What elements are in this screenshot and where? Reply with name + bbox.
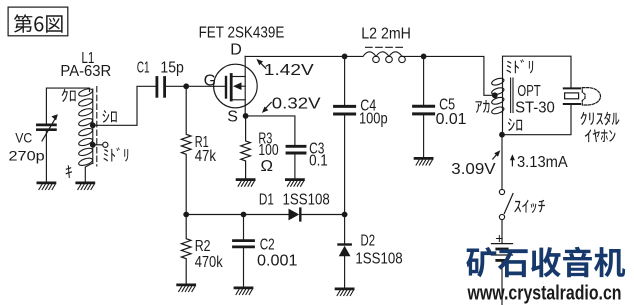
svg-text:100p: 100p [359,111,388,128]
label fig number [14,14,63,33]
label midori L1 [104,147,129,161]
wire AGC rail left [186,214,288,216]
svg-text:D: D [230,42,242,59]
svg-text:270p: 270p [9,147,45,163]
wire C3 to ground [294,154,296,178]
OPT primary coil loops [491,77,505,115]
ground under C2 [235,288,252,295]
svg-text:15p: 15p [160,60,184,77]
svg-text:PA-63R: PA-63R [60,63,111,80]
FET internal vertical D-S [244,56,246,116]
svg-text:1SS108: 1SS108 [283,192,330,209]
svg-text:1.42V: 1.42V [264,62,314,79]
svg-text:R2: R2 [195,238,211,255]
inductor L2 [363,52,405,63]
svg-text:S: S [227,108,238,125]
capacitor VC variable [37,125,55,130]
capacitor C4 [344,56,346,104]
transistor Q1 FET circle [214,64,258,108]
node C4 top junction [342,54,348,60]
label ki [66,165,72,178]
svg-text:C1: C1 [137,60,150,77]
svg-text:0.1: 0.1 [309,153,328,170]
ground under VC [38,183,55,190]
node switch top junction [499,132,505,138]
arrow 0.32V [264,103,271,111]
wire C1 to gate [166,85,225,87]
ground under C5 [415,158,432,165]
svg-text:D2: D2 [361,233,376,250]
svg-text:100: 100 [258,142,278,159]
wire D1 to C4/D2 junction [302,214,345,216]
capacitor C1 [157,78,165,97]
ground under L1 [77,183,94,190]
FET drain stub [233,76,246,78]
svg-text:Ω: Ω [261,158,274,175]
node S junction [243,113,249,119]
capacitor C3 [287,146,305,153]
switch contacts [499,189,504,194]
svg-text:ST-30: ST-30 [515,99,555,116]
node midori tap [90,142,96,148]
svg-text:470k: 470k [195,254,224,271]
switch lever [504,194,513,214]
ground under R2 [178,285,195,292]
svg-text:3.13mA: 3.13mA [517,154,568,171]
node R2 rail junction [183,212,189,218]
ground under R3 [237,180,254,187]
wire OPT bottom to switch [501,135,503,190]
arrow 1.42V [258,61,265,68]
svg-text:0.01: 0.01 [436,111,467,128]
label shiro OPT [508,118,522,131]
node C5 top junction [421,54,427,60]
node D2 rail junction [342,212,348,218]
resistor R2 [181,215,191,284]
svg-text:0.001: 0.001 [257,253,298,270]
svg-text:OPT: OPT [517,83,540,100]
diode D1 [289,209,300,221]
capacitor C5 [423,56,425,104]
watermark cn text [466,247,625,278]
wire switch to battery [501,220,503,243]
L1 core dashed line [96,87,98,167]
node C2 rail junction [241,212,247,218]
svg-text:+: + [495,230,503,246]
FET substrate arrow [240,85,245,87]
node OPT tap dot [492,92,498,98]
earphone shell [582,88,600,105]
label switch name [514,200,545,213]
resistor R1 [181,86,191,214]
OPT core bars [510,78,512,113]
wire S node to C3 [246,116,295,145]
resistor R3 [241,116,251,178]
svg-text:0.32V: 0.32V [272,96,321,113]
svg-text:L2 2mH: L2 2mH [361,26,411,43]
label aka [476,100,490,113]
svg-text:47k: 47k [195,148,217,165]
wire L2 to C5 and right [402,56,493,95]
label kuro [62,89,76,102]
node C1/R1 junction [183,83,189,89]
svg-text:3.09V: 3.09V [451,161,496,178]
ground under D2 [336,289,353,296]
earphone crystal element [564,87,580,89]
FET source stub [233,99,246,101]
capacitor C2 [243,215,245,240]
FET gate bar [225,77,227,98]
L2 core dashed [366,46,403,48]
svg-text:C2: C2 [260,237,275,254]
svg-text:D1: D1 [259,192,274,209]
figure label box [8,7,68,36]
svg-text:G: G [204,72,216,89]
wire secondary loop rectangle [503,56,572,113]
svg-text:www.crystalradio.cn: www.crystalradio.cn [467,283,622,305]
svg-text:FET 2SK439E: FET 2SK439E [199,25,285,42]
wire battery to bottom edge [501,260,503,305]
label earphone [585,129,616,142]
wire L1 bottom to ground [85,163,93,182]
wire top rail drain to L2 [245,55,362,57]
wire VC top to L1 top [46,88,89,124]
wire shiro tap to C1 [93,86,156,125]
label shiro L1 [103,110,117,123]
battery B1 [492,243,513,245]
inductor L1 coil loops [78,87,94,166]
diode D2 [344,215,346,245]
label crystal [581,112,620,126]
svg-text:VC: VC [15,130,32,146]
label midori OPT [507,59,534,73]
svg-text:1SS108: 1SS108 [355,251,402,268]
wire midori tap to open terminal [93,144,103,146]
node shiro tap [90,122,96,128]
ground under C3 [286,180,303,187]
FET channel bar [230,75,233,101]
arrow 3.13mA [511,158,513,166]
wire VC bottom to ground [45,131,47,182]
arrow 3.09V [493,153,499,159]
